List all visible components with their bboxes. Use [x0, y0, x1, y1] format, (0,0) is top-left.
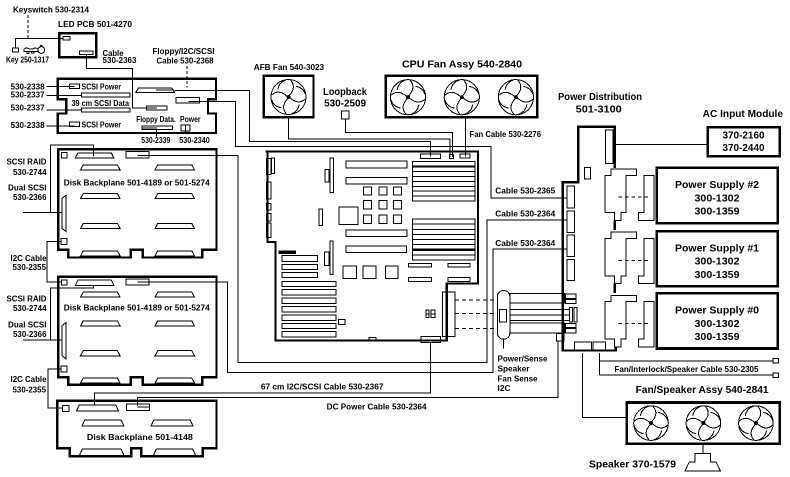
motherboard vertical bar 2: [330, 241, 333, 275]
power supply #0 box: [657, 293, 778, 348]
motherboard jumper A: [426, 310, 429, 318]
wire I2C cable bp2-bp3: [48, 369, 62, 408]
bp2 labels: [7, 295, 48, 395]
wire bp2 SCSI loop: [23, 286, 94, 340]
wire loopback to motherboard: [346, 119, 453, 157]
motherboard chips row: [343, 266, 398, 279]
dashed PSU sense lines: [455, 300, 496, 329]
memory bank 1: [413, 162, 475, 202]
svg-text:AFB Fan 540-3023: AFB Fan 540-3023: [254, 63, 325, 72]
bp2 top power connector: [126, 279, 149, 285]
fan/interlock terminator B: [773, 373, 779, 378]
motherboard left edge connectors: [266, 158, 274, 237]
bp2 top SCSI connector: [75, 280, 114, 285]
motherboard vertical bar 1: [330, 158, 333, 192]
power/sense labels: [498, 355, 549, 393]
power distribution 501-3100 board outline: [563, 127, 616, 351]
svg-text:Power Distribution: Power Distribution: [558, 92, 642, 103]
PD DC cable connector: [557, 334, 565, 342]
floppy/I2C/SCSI dashed pointer: [186, 66, 188, 88]
svg-text:I2C Cable: I2C Cable: [11, 375, 48, 384]
motherboard small connector right: [338, 319, 345, 324]
pointer 530-2338 A: [47, 85, 75, 87]
pointer 530-2338 B: [47, 125, 75, 127]
motherboard flat bar: [279, 251, 296, 253]
svg-text:Dual SCSI: Dual SCSI: [8, 183, 47, 192]
svg-text:SCSI Power: SCSI Power: [82, 82, 122, 91]
dashed link PSU1: [619, 259, 652, 261]
svg-text:I2C: I2C: [498, 384, 511, 393]
CPU fan assy 540-2840 box: [386, 76, 538, 118]
svg-text:370-2160: 370-2160: [723, 131, 765, 142]
svg-text:Fan/Speaker Assy 540-2841: Fan/Speaker Assy 540-2841: [636, 385, 769, 396]
svg-text:Speaker: Speaker: [498, 365, 530, 374]
wire bp1 SCSI loop: [23, 145, 94, 213]
svg-text:501-3100: 501-3100: [576, 105, 622, 116]
motherboard CPU chip: [339, 207, 358, 224]
assy fan 1 blades: [634, 406, 669, 441]
wire cable 530-2365 to power distribution: [189, 102, 567, 199]
connector 530-2337 bar A: [82, 93, 131, 97]
wire AC input to PD: [613, 144, 707, 146]
wire fan cable 530-2276: [464, 119, 466, 157]
pointer 530-2337 A: [47, 94, 82, 96]
wire I2C cable bp1-bp2: [47, 242, 62, 282]
power/sense bar 1: [510, 294, 576, 304]
keyswitch connector square: [12, 48, 18, 52]
PD output connector PSU1: [605, 232, 637, 284]
bp2 drive connectors: [81, 292, 195, 383]
power distribution neck 1: [613, 221, 615, 230]
svg-text:Disk Backplane 501-4189 or 501: Disk Backplane 501-4189 or 501-5274: [64, 178, 210, 187]
motherboard AFB/loopback connector: [449, 154, 453, 158]
motherboard slot bar 3: [346, 230, 407, 237]
AFB fan blades: [271, 80, 306, 115]
svg-text:530-2744: 530-2744: [13, 168, 47, 177]
svg-text:530-2744: 530-2744: [13, 304, 47, 313]
disk backplane 1 box: [58, 149, 216, 257]
svg-text:Disk Backplane 501-4189 or 501: Disk Backplane 501-4189 or 501-5274: [64, 303, 210, 312]
svg-text:530-2339: 530-2339: [141, 136, 170, 145]
svg-text:Fan/Interlock/Speaker Cable 53: Fan/Interlock/Speaker Cable 530-2305: [615, 364, 759, 374]
svg-text:Cable 530-2364: Cable 530-2364: [495, 209, 556, 218]
PD output connector PSU2: [605, 169, 637, 221]
svg-text:Cable 530-2365: Cable 530-2365: [495, 187, 556, 196]
svg-text:Keyswitch 530-2314: Keyswitch 530-2314: [13, 5, 90, 14]
CPU fan 3 blades: [498, 80, 533, 115]
CPU fan 2 blades: [444, 80, 479, 115]
svg-text:530-2355: 530-2355: [13, 263, 47, 272]
power supply #2 labels: [675, 180, 759, 217]
svg-text:Cable 530-2368: Cable 530-2368: [157, 56, 215, 65]
motherboard floppy connector: [421, 154, 441, 159]
motherboard fan connector: [460, 154, 470, 158]
power supply #0 labels: [675, 306, 759, 343]
power/sense bar 2: [510, 308, 577, 323]
connector 530-2338 SCSI power B: [69, 122, 79, 127]
assy fan 2 blades: [686, 406, 721, 441]
svg-text:67 cm I2C/SCSI Cable 530-2367: 67 cm I2C/SCSI Cable 530-2367: [261, 382, 384, 391]
PSU input connector PSU0: [638, 302, 654, 347]
power supply #1 labels: [675, 243, 759, 280]
svg-text:LED PCB 501-4270: LED PCB 501-4270: [58, 19, 132, 29]
LED PCB cable connector: [79, 51, 92, 55]
floppy connector trapezoid: [136, 88, 175, 93]
disk backplane 2 box: [58, 277, 216, 385]
svg-text:530-2355: 530-2355: [13, 386, 47, 395]
wire AFB fan to motherboard: [289, 119, 451, 158]
motherboard slot bar 1: [346, 161, 407, 168]
PSU input connector PSU2: [638, 175, 654, 220]
PD left contact 3: [567, 235, 575, 256]
CPU fan 1 blades: [390, 80, 425, 115]
bp2 left SCSI connector: [62, 323, 66, 359]
svg-text:530-2338: 530-2338: [11, 121, 46, 130]
svg-text:300-1302: 300-1302: [695, 193, 740, 204]
motherboard slot bar 2: [346, 178, 407, 185]
LED PCB 501-4270 box: [59, 33, 96, 57]
svg-text:Power Supply #1: Power Supply #1: [675, 243, 759, 254]
svg-text:530-2363: 530-2363: [103, 56, 138, 65]
svg-text:SCSI Power: SCSI Power: [82, 120, 122, 129]
power/sense tail: [503, 339, 505, 348]
wire keyswitch to LED PCB: [16, 39, 63, 49]
motherboard PCI short slots: [282, 256, 318, 278]
power/sense bar 3: [510, 323, 576, 333]
wire PD to fan/speaker assy: [583, 353, 626, 417]
svg-text:530-2337: 530-2337: [11, 90, 46, 99]
bp3 top-left I2C connector: [62, 405, 69, 411]
svg-text:Disk Backplane 501-4148: Disk Backplane 501-4148: [87, 433, 194, 442]
AC input module box: [708, 127, 780, 156]
assy fan 3 blades: [739, 406, 774, 441]
svg-text:Power Supply #2: Power Supply #2: [675, 180, 759, 191]
bp1 top-left I2C connector: [62, 153, 67, 158]
svg-text:Loopback: Loopback: [323, 87, 367, 98]
motherboard small rect 3: [325, 252, 329, 265]
connector 530-2338 SCSI power A: [69, 84, 79, 89]
keyswitch dashed pointer: [27, 15, 29, 39]
motherboard outline: [266, 152, 479, 341]
bp1 labels: [7, 158, 48, 273]
svg-text:300-1359: 300-1359: [695, 207, 740, 218]
dashed link PSU0: [619, 323, 652, 325]
PD output connector PSU0: [605, 295, 637, 347]
memory bank 2: [413, 219, 475, 260]
loopback 530-2509 connector: [342, 111, 350, 119]
wire 67cm I2C/SCSI cable 530-2367: [94, 343, 430, 406]
bp1 drive connectors: [81, 165, 195, 256]
power distribution neck 2: [613, 284, 615, 293]
connector cable 530-2363 target: [146, 106, 167, 110]
svg-text:370-2440: 370-2440: [723, 143, 765, 154]
svg-text:Fan Cable 530-2276: Fan Cable 530-2276: [470, 130, 542, 139]
svg-text:Floppy Data.: Floppy Data.: [136, 115, 176, 124]
svg-text:Fan Sense: Fan Sense: [498, 374, 539, 383]
power/sense inner rect: [500, 309, 507, 322]
svg-text:CPU Fan Assy 540-2840: CPU Fan Assy 540-2840: [402, 60, 522, 71]
connector 530-2337 bar B: [82, 108, 131, 112]
AFB fan 540-3023 box: [264, 76, 314, 118]
bp2 top-left I2C connector: [62, 280, 67, 285]
motherboard DC power connector: [421, 337, 440, 343]
bp3 top SCSI connector: [77, 405, 119, 411]
bp1 bottom I2C connector: [61, 239, 67, 245]
wire cable 530-2363: [87, 55, 158, 108]
bp3 top power connector: [126, 404, 149, 410]
PD left contact 4: [567, 260, 575, 281]
svg-text:Dual SCSI: Dual SCSI: [8, 320, 47, 329]
motherboard small rect 1: [325, 170, 329, 182]
pointer 530-2337 B: [47, 109, 83, 111]
motherboard tiny bottom connector: [369, 338, 376, 341]
svg-text:SCSI RAID: SCSI RAID: [7, 158, 47, 167]
svg-text:39 cm SCSI Data: 39 cm SCSI Data: [72, 99, 130, 108]
PD left contact 1: [567, 186, 575, 208]
SCSI power distribution box: [58, 79, 216, 133]
pointer 530-2339: [156, 130, 158, 137]
PD bottom connector A: [575, 342, 592, 350]
motherboard PSU connector: [443, 292, 455, 337]
svg-text:530-2340: 530-2340: [179, 136, 210, 145]
bp2 bottom I2C connector: [61, 366, 67, 372]
floppy data connector: [142, 126, 172, 130]
power distribution small rect: [584, 168, 590, 179]
svg-text:300-1359: 300-1359: [695, 332, 740, 343]
svg-text:Cable 530-2364: Cable 530-2364: [495, 239, 556, 248]
wire fan/interlock/speaker cable: [599, 353, 773, 375]
wire speaker: [702, 445, 704, 454]
key 250-1317 symbol: [24, 45, 44, 53]
svg-text:Power: Power: [180, 115, 201, 124]
bp1 top SCSI connector: [75, 153, 114, 158]
bp1 left SCSI connector: [62, 195, 66, 231]
motherboard small bars below memory: [409, 263, 471, 281]
svg-text:I2C Cable: I2C Cable: [11, 254, 48, 263]
fan/speaker assy 540-2841 box: [627, 403, 780, 444]
motherboard PCI long slots: [282, 281, 336, 337]
fan/interlock terminator A: [773, 359, 779, 364]
AC input connector: [606, 130, 613, 164]
bp3 drive connectors: [80, 420, 196, 455]
speaker 370-1579 symbol: [685, 453, 720, 471]
svg-text:300-1302: 300-1302: [695, 319, 740, 330]
PD bottom connector B: [593, 342, 606, 350]
svg-text:Speaker 370-1579: Speaker 370-1579: [589, 459, 676, 470]
power supply #1 box: [657, 231, 778, 286]
motherboard chip grid: [364, 187, 402, 223]
wire floppy cable to motherboard: [174, 90, 430, 156]
motherboard small rect 2: [319, 209, 322, 226]
dashed link PSU2: [619, 196, 652, 198]
connector cable 530-2368: [176, 97, 199, 103]
svg-text:530-2366: 530-2366: [13, 330, 47, 339]
bp1 top power connector: [126, 152, 149, 158]
wire DC power cable 530-2364: [138, 341, 558, 405]
power supply #2 box: [657, 168, 778, 223]
PD left contact 2: [567, 211, 575, 232]
svg-text:DC Power Cable 530-2364: DC Power Cable 530-2364: [327, 403, 427, 412]
power/sense cable stadium: [497, 290, 510, 339]
PSU input connector PSU1: [638, 239, 654, 284]
svg-text:300-1359: 300-1359: [695, 270, 740, 281]
motherboard jumper B: [431, 310, 435, 318]
LED PCB keyswitch connector: [63, 37, 70, 41]
motherboard slot bar 4: [346, 246, 406, 253]
svg-text:530-2337: 530-2337: [11, 104, 46, 113]
power connector 530-2340: [181, 125, 190, 131]
svg-text:530-2509: 530-2509: [324, 98, 366, 109]
wire cable 530-2364 #1: [149, 249, 567, 372]
svg-text:530-2366: 530-2366: [13, 193, 47, 202]
wire cable 530-2364 #2: [149, 155, 567, 362]
svg-text:300-1302: 300-1302: [695, 257, 740, 268]
svg-text:Power/Sense: Power/Sense: [498, 355, 549, 364]
svg-text:Power Supply #0: Power Supply #0: [675, 306, 759, 317]
svg-text:Key 250-1317: Key 250-1317: [6, 56, 49, 65]
svg-text:SCSI RAID: SCSI RAID: [7, 295, 47, 304]
svg-text:Floppy/I2C/SCSI: Floppy/I2C/SCSI: [153, 47, 215, 56]
svg-text:AC Input Module: AC Input Module: [703, 109, 784, 120]
disk backplane 3 box: [57, 401, 216, 457]
